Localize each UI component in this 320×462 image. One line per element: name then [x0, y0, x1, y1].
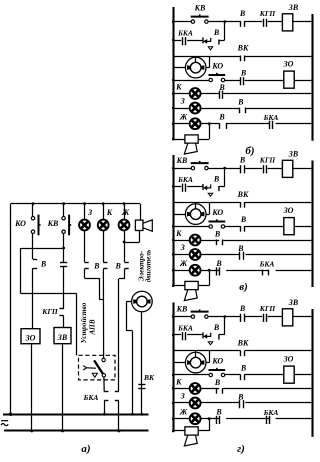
- node row2 riser junction (в): [223, 167, 226, 170]
- node bus2 Ж junction (а): [118, 430, 121, 433]
- node row5 left bus junction (б): [172, 92, 175, 95]
- wire БКА to bus1 (а): [104, 401, 106, 415]
- svg-text:ВК: ВК: [237, 44, 249, 53]
- svg-text:БКА: БКА: [263, 113, 279, 122]
- wire row2 (б): [173, 22, 224, 41]
- contact В КВ-branch (а): [60, 263, 67, 267]
- node bus1 motor-left junction (а): [131, 413, 134, 416]
- wire row4 (в): [173, 226, 312, 228]
- wire row1 (в): [173, 168, 312, 170]
- svg-text:В: В: [240, 363, 247, 372]
- svg-text:В: В: [218, 113, 225, 122]
- contact В row5 (в): [217, 240, 223, 246]
- wire motor top stub (б): [195, 56, 197, 59]
- svg-text:БКА: БКА: [263, 408, 279, 417]
- node row6 left bus junction (в): [172, 253, 175, 256]
- motor (в): [185, 204, 206, 225]
- svg-text:КО: КО: [14, 219, 26, 228]
- wire frame top border (а): [11, 203, 140, 205]
- svg-text:ЗВ: ЗВ: [57, 333, 68, 342]
- lamp Ж (в): [190, 265, 201, 276]
- node row7 left bus junction (б): [172, 122, 175, 125]
- wire З branch upper (а): [84, 204, 86, 220]
- wire left bus (г): [172, 303, 174, 432]
- svg-text:КО: КО: [211, 208, 223, 217]
- wire motor right riser (г): [205, 351, 210, 363]
- contact В row5 (б): [220, 91, 223, 99]
- svg-text:З: З: [87, 208, 92, 217]
- svg-text:ВК: ВК: [237, 190, 249, 199]
- coil ЗО (б): [284, 71, 294, 88]
- contact В row1 (г): [241, 314, 245, 322]
- svg-text:Ж: Ж: [179, 408, 188, 417]
- svg-text:К: К: [175, 83, 182, 92]
- node Ж top junction (а): [123, 202, 126, 205]
- lamp К (б): [190, 88, 201, 99]
- pushbutton КВ (б): [191, 14, 209, 23]
- wire Ж branch contact seg (а): [124, 242, 126, 262]
- contact В КО-branch (а): [33, 260, 37, 269]
- svg-text:БКА: БКА: [177, 324, 193, 333]
- node horn row junction (б): [172, 138, 175, 141]
- svg-text:КГП: КГП: [259, 156, 277, 165]
- wire motor top stub (г): [195, 351, 197, 354]
- switch АПВ triangle (а): [92, 373, 97, 377]
- contact БКА row7 (б): [270, 121, 273, 129]
- pushbutton КО (в): [209, 219, 226, 228]
- label AC supply symbol (а): [1, 421, 8, 426]
- wire КВ branch upper (а): [63, 204, 65, 262]
- svg-text:КВ: КВ: [194, 3, 206, 12]
- horn (б): [184, 135, 198, 154]
- wire ЗВ to bus (а): [62, 344, 64, 431]
- wire right bus (в): [311, 161, 313, 288]
- node horn-Ж junction (а): [123, 241, 126, 244]
- coil ЗО (в): [284, 218, 294, 235]
- horn (в): [184, 281, 198, 300]
- wire row2 (г): [173, 317, 224, 335]
- wire motor left (в): [173, 214, 186, 216]
- svg-text:В: В: [214, 230, 221, 239]
- svg-text:В: В: [240, 215, 247, 224]
- contact В АПВ row2 (г): [203, 332, 219, 344]
- node КО top junction (а): [32, 202, 35, 205]
- node row1 left bus junction (в): [172, 167, 175, 170]
- contact БКА row2 (в): [183, 184, 186, 192]
- node row2 riser junction (б): [223, 20, 226, 23]
- wire horn row (б): [173, 124, 209, 140]
- node К top junction (а): [102, 202, 105, 205]
- horn (г): [184, 427, 198, 446]
- wire row7 (в): [173, 270, 312, 272]
- svg-text:ЗВ: ЗВ: [288, 298, 299, 307]
- wire bracket (а): [21, 248, 77, 355]
- wire Ж branch mid (а): [124, 230, 126, 242]
- wire Ж branch upper (а): [124, 204, 126, 220]
- wire row1 (г): [173, 316, 312, 318]
- svg-text:В: В: [239, 156, 246, 165]
- node row7 left bus junction (в): [172, 269, 175, 272]
- wire horn bottom (а): [124, 231, 140, 243]
- svg-text:В: В: [215, 259, 222, 268]
- svg-text:В: В: [213, 28, 220, 37]
- node bus1 border junction (а): [9, 413, 12, 416]
- wire row7 (г): [173, 418, 312, 420]
- contact БКА-right (а): [115, 392, 119, 401]
- svg-text:КО: КО: [211, 357, 223, 366]
- pushbutton КО (г): [209, 368, 226, 377]
- svg-text:ЗО: ЗО: [25, 333, 36, 342]
- device box Устройство АПВ (а): [79, 355, 116, 380]
- contact В row7 (в): [217, 267, 220, 275]
- contact В З-branch (а): [85, 263, 89, 269]
- contact БКА row7 (в): [263, 270, 269, 276]
- wire З branch lower (а): [85, 269, 104, 300]
- lamp К (а): [98, 220, 109, 231]
- svg-text:Ж: Ж: [179, 259, 188, 268]
- wire КВ branch middle (а): [63, 267, 65, 309]
- svg-text:К: К: [106, 208, 113, 217]
- svg-text:КВ: КВ: [176, 156, 188, 165]
- switch АПВ top pivot (а): [102, 358, 105, 361]
- svg-text:В: В: [213, 323, 220, 332]
- lamp Ж (г): [190, 413, 201, 424]
- node link junction (а): [62, 247, 65, 250]
- wire motor right riser (в): [205, 203, 210, 215]
- svg-text:В: В: [237, 393, 244, 402]
- svg-text:В: В: [218, 83, 225, 92]
- svg-text:В: В: [214, 378, 221, 387]
- contact ВК row3 (в): [241, 202, 245, 208]
- wire ЗО to bus (а): [31, 344, 33, 431]
- node horn riser junction (в): [208, 269, 211, 272]
- svg-text:В: В: [240, 68, 247, 77]
- wire К branch mid (а): [103, 230, 105, 262]
- node row6 left bus junction (г): [172, 402, 175, 405]
- pushbutton КВ (г): [191, 309, 209, 318]
- node horn riser junction (г): [208, 417, 211, 420]
- svg-text:ЗО: ЗО: [283, 60, 294, 69]
- lamp Ж (а): [119, 220, 130, 231]
- wire row5 (г): [173, 388, 312, 390]
- svg-text:ВК: ВК: [143, 373, 155, 382]
- wire bus1 (а): [3, 414, 149, 416]
- wire horn row (г): [173, 419, 209, 431]
- svg-text:В: В: [237, 244, 244, 253]
- wire row1 (б): [173, 21, 312, 23]
- lamp К (г): [190, 383, 201, 394]
- wire bus2 (а): [4, 430, 149, 432]
- wire row3 (б): [173, 56, 312, 58]
- wire row4 (г): [173, 374, 312, 376]
- node bus2 ЗВ junction (а): [61, 430, 64, 433]
- motor (г): [185, 352, 206, 373]
- coil box ЗО (а): [21, 329, 40, 344]
- svg-text:БКА: БКА: [259, 259, 275, 268]
- svg-text:БКА: БКА: [83, 393, 99, 402]
- wire КО branch upper (а): [32, 204, 34, 260]
- svg-text:К: К: [175, 378, 182, 387]
- wire row5 (в): [173, 240, 312, 242]
- svg-text:В: В: [239, 9, 246, 18]
- contact КГП row1 (г): [264, 314, 267, 322]
- svg-text:КГП: КГП: [259, 9, 277, 18]
- wire switch to БКА (а): [103, 377, 105, 392]
- lamp З (а): [79, 220, 90, 231]
- wire motor left (г): [173, 362, 186, 364]
- contact В row7 (г): [217, 416, 220, 424]
- svg-text:В: В: [115, 261, 122, 270]
- wire row4 (б): [173, 80, 312, 82]
- contact В К-branch (а): [103, 263, 107, 269]
- svg-text:БКА: БКА: [177, 175, 193, 184]
- wire switch top (а): [103, 358, 105, 360]
- wire horn row (в): [173, 270, 209, 285]
- node row4 left bus junction (г): [172, 374, 175, 377]
- coil ЗВ (в): [282, 160, 292, 177]
- node row7 left bus junction (г): [172, 417, 175, 420]
- node row2 riser junction (г): [223, 315, 226, 318]
- wire motor bottom (а): [141, 312, 143, 415]
- svg-text:З: З: [180, 97, 185, 106]
- svg-text:В: В: [215, 408, 222, 417]
- svg-text:Ж: Ж: [179, 113, 188, 122]
- svg-text:АПВ: АПВ: [88, 319, 97, 335]
- wire row2 (в): [173, 168, 224, 186]
- contact БКА row2 (б): [183, 37, 186, 45]
- contact В row5 (г): [217, 388, 223, 394]
- svg-text:В: В: [93, 261, 100, 270]
- wire row3 (в): [173, 202, 312, 204]
- svg-text:ЗВ: ЗВ: [288, 150, 299, 159]
- contact В row6 (в): [240, 252, 244, 260]
- motor (б): [185, 57, 206, 78]
- wire right bus (б): [311, 14, 313, 141]
- node row2 left bus junction (б): [172, 39, 175, 42]
- wire row7 (б): [173, 123, 312, 125]
- svg-text:двигатель: двигатель: [145, 249, 153, 282]
- node row2 left bus junction (в): [172, 185, 175, 188]
- lamp З (б): [190, 103, 201, 114]
- wire row6 (б): [173, 108, 312, 110]
- node row5 left bus junction (г): [172, 387, 175, 390]
- svg-text:В: В: [40, 260, 47, 269]
- svg-text:КГП: КГП: [259, 304, 277, 313]
- contact В row6 (г): [240, 400, 244, 408]
- contact БКА row7 (г): [267, 416, 270, 424]
- svg-text:а): а): [81, 443, 90, 455]
- node bus1 БКА junction (а): [103, 413, 106, 416]
- svg-text:КО: КО: [211, 62, 223, 71]
- contact В Ж-branch (а): [125, 263, 129, 269]
- wire К branch upper (а): [103, 204, 105, 220]
- contact В АПВ row2 (б): [203, 37, 219, 49]
- node horn riser junction (б): [208, 122, 211, 125]
- node row5 left bus junction (в): [172, 239, 175, 242]
- pushbutton КВ (а): [62, 215, 71, 236]
- svg-text:б): б): [245, 145, 254, 157]
- coil box ЗВ (а): [54, 328, 71, 344]
- contact В row4 (г): [241, 375, 245, 381]
- contact В row1 (в): [241, 165, 245, 173]
- svg-text:КВ: КВ: [176, 305, 188, 314]
- wire К branch lower (а): [102, 269, 104, 358]
- svg-text:ЗВ: ЗВ: [288, 3, 299, 12]
- contact КГП row1 (б): [264, 19, 267, 27]
- svg-text:ВК: ВК: [237, 339, 249, 348]
- node row1 left bus junction (г): [172, 315, 175, 318]
- node horn row junction (в): [172, 284, 175, 287]
- svg-text:ЗО: ЗО: [283, 355, 294, 364]
- wire frame left border (а): [10, 204, 12, 415]
- wire left bus (б): [172, 7, 174, 139]
- node row4 left bus junction (в): [172, 225, 175, 228]
- wire motor right riser (б): [205, 56, 210, 68]
- node row6 left bus junction (б): [172, 107, 175, 110]
- node row2 left bus junction (г): [172, 334, 175, 337]
- contact БКА (а): [104, 392, 108, 401]
- pushbutton КО (а): [31, 215, 40, 236]
- svg-text:В: В: [237, 98, 244, 107]
- wire КО-КВ link (а): [21, 248, 64, 250]
- contact КГП row1 (в): [264, 165, 267, 173]
- node row4 left bus junction (б): [172, 79, 175, 82]
- node bus2 ЗО junction (а): [30, 430, 33, 433]
- switch АПВ bottom pivot (а): [102, 374, 105, 377]
- svg-text:КГП: КГП: [41, 307, 59, 316]
- contact В row4 (б): [241, 77, 244, 85]
- wire Ж branch lower (а): [119, 269, 125, 392]
- svg-text:К: К: [175, 229, 182, 238]
- wire row6 (в): [173, 254, 312, 256]
- contact В АПВ row2 (в): [203, 184, 219, 196]
- wire horn feed (а): [140, 204, 142, 220]
- svg-text:З: З: [180, 392, 185, 401]
- svg-text:З: З: [180, 243, 185, 252]
- contact ВК (а): [138, 385, 145, 389]
- contact БКА row2 (г): [183, 332, 186, 340]
- contact ВК row3 (б): [241, 56, 245, 62]
- wire motor top stub (в): [195, 203, 197, 206]
- contact В row7 (б): [220, 123, 227, 129]
- wire КВ branch lower (а): [63, 316, 65, 328]
- pushbutton КО (б): [209, 73, 226, 82]
- wire З branch mid (а): [84, 230, 86, 262]
- lamp З (г): [190, 398, 201, 409]
- wire right bus (г): [311, 309, 313, 437]
- svg-text:г): г): [237, 443, 245, 455]
- node КВ top junction (а): [62, 202, 65, 205]
- wire motor left branch (а): [127, 302, 133, 415]
- lamp Ж (б): [190, 118, 201, 129]
- wire Ж to bus2 (а): [118, 401, 120, 431]
- switch АПВ arm (а): [83, 366, 96, 370]
- lamp З (в): [190, 249, 201, 260]
- contact КГП (а): [59, 309, 63, 316]
- contact ВК row3 (г): [241, 351, 245, 357]
- coil ЗВ (г): [282, 309, 292, 326]
- svg-text:БКА: БКА: [177, 29, 193, 38]
- svg-text:ЗО: ЗО: [283, 206, 294, 215]
- wire row6 (г): [173, 402, 312, 404]
- node row1 left bus junction (б): [172, 20, 175, 23]
- wire motor left (б): [173, 67, 186, 69]
- motor (а): [132, 291, 153, 312]
- pushbutton КВ (в): [191, 161, 209, 170]
- svg-text:В: В: [239, 304, 246, 313]
- coil ЗВ (б): [282, 14, 292, 31]
- node horn row junction (г): [172, 430, 175, 433]
- svg-text:КВ: КВ: [47, 219, 59, 228]
- contact В row6 (б): [240, 108, 246, 114]
- wire left bus (в): [172, 155, 174, 286]
- horn (а): [135, 220, 152, 231]
- contact В row4 (в): [241, 226, 245, 232]
- wire row5 (б): [173, 93, 312, 95]
- wire row3 (г): [173, 350, 312, 352]
- lamp К (в): [190, 235, 201, 246]
- switch АПВ blade (а): [94, 360, 103, 374]
- node З top junction (а): [83, 202, 86, 205]
- coil ЗО (г): [284, 366, 294, 383]
- wire КО branch lower (а): [32, 268, 34, 329]
- svg-text:В: В: [213, 174, 220, 183]
- contact В row1 (б): [241, 21, 245, 27]
- svg-text:Ж: Ж: [121, 208, 130, 217]
- node bus1 motor junction (а): [141, 413, 144, 416]
- svg-text:в): в): [239, 281, 248, 293]
